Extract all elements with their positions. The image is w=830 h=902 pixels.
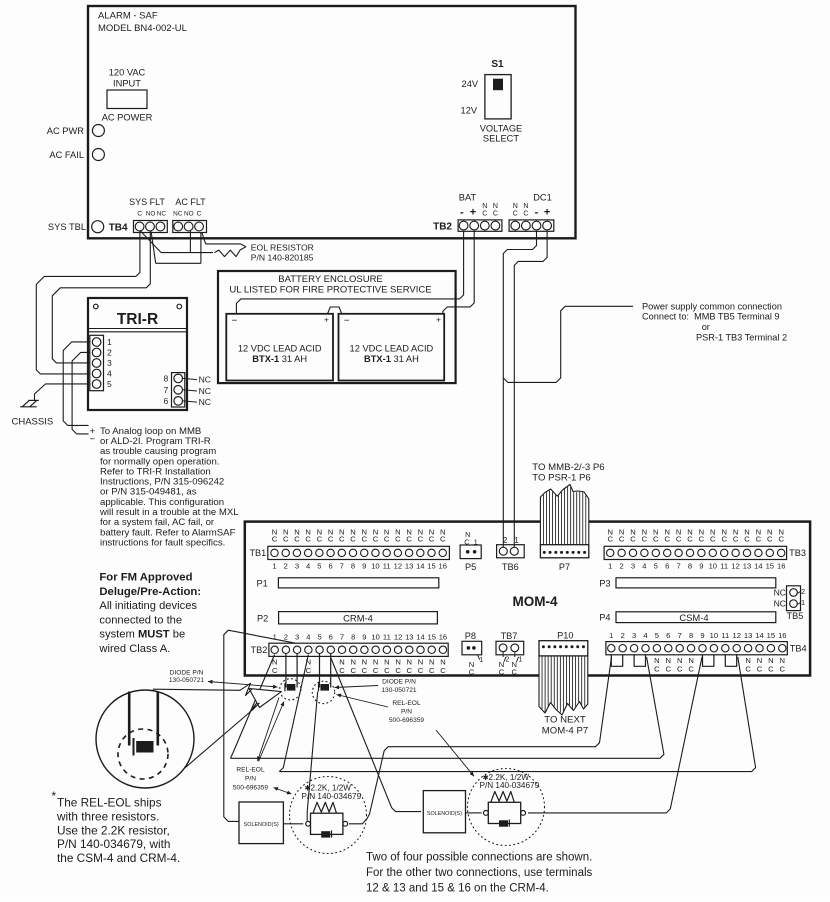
svg-text:Two of four possible connectio: Two of four possible connections are sho… xyxy=(366,852,592,864)
svg-text:7: 7 xyxy=(340,632,344,641)
svg-text:system MUST be: system MUST be xyxy=(99,629,185,641)
svg-text:P7: P7 xyxy=(559,562,570,572)
svg-text:8: 8 xyxy=(164,374,169,384)
TB4 jumper loops pairs 1-2 3-4 9-10 11-12 xyxy=(611,654,622,666)
svg-text:1: 1 xyxy=(609,631,613,640)
svg-text:-: - xyxy=(535,207,539,219)
svg-text:C: C xyxy=(756,535,762,544)
svg-text:C: C xyxy=(768,664,774,673)
svg-text:MODEL BN4-002-UL: MODEL BN4-002-UL xyxy=(98,23,187,34)
EOL resistor zigzag xyxy=(215,244,246,257)
svg-text:6: 6 xyxy=(666,631,670,640)
svg-text:Deluge/Pre-Action:: Deluge/Pre-Action: xyxy=(99,586,201,598)
zoom diode xyxy=(136,741,153,753)
svg-text:TB4: TB4 xyxy=(109,223,128,234)
svg-text:C: C xyxy=(407,666,413,675)
svg-text:All initiating devices: All initiating devices xyxy=(99,600,197,612)
svg-text:MOM-4 P7: MOM-4 P7 xyxy=(542,726,588,737)
REL-EOL dashed circle at D2 xyxy=(312,681,334,703)
svg-text:−: − xyxy=(90,434,96,445)
LED AC FAIL xyxy=(92,149,104,161)
svg-text:NC: NC xyxy=(157,210,167,217)
wire TB4 pair 1-2 to bus Ha to resistor 1 right xyxy=(349,657,612,824)
assembly 1 dotted circle xyxy=(290,777,367,854)
svg-text:C: C xyxy=(642,535,648,544)
svg-text:C: C xyxy=(778,535,784,544)
svg-text:TRI-R: TRI-R xyxy=(117,311,158,328)
wire SYS FLT NO to TRI-R terminal 3 xyxy=(52,231,150,363)
svg-text:4: 4 xyxy=(306,561,310,570)
diode D2 across TB2 terminals 5-6 xyxy=(319,654,321,688)
svg-text:DC1: DC1 xyxy=(533,193,552,203)
wire TRI-R terminal 1 to analog + xyxy=(63,342,90,426)
svg-text:2: 2 xyxy=(107,348,112,358)
wire TRI-R terminal 2 to analog - xyxy=(72,352,90,434)
svg-text:7: 7 xyxy=(678,631,682,640)
svg-text:12: 12 xyxy=(732,631,740,640)
svg-text:C: C xyxy=(373,535,379,544)
battery 2 xyxy=(339,314,445,381)
svg-text:12: 12 xyxy=(731,561,739,570)
svg-text:BATTERY ENCLOSURE: BATTERY ENCLOSURE xyxy=(278,274,383,285)
svg-text:For FM Approved: For FM Approved xyxy=(99,572,192,584)
svg-text:wired Class A.: wired Class A. xyxy=(98,643,170,655)
svg-text:NO: NO xyxy=(146,210,156,217)
zoom dashed circle xyxy=(118,729,168,779)
svg-text:5: 5 xyxy=(317,561,321,570)
svg-text:C: C xyxy=(272,666,278,675)
svg-text:C: C xyxy=(664,535,670,544)
svg-text:C: C xyxy=(197,210,202,217)
svg-text:14: 14 xyxy=(416,632,424,641)
TRI-R right terminal strip 8 7 6 xyxy=(172,373,185,407)
svg-text:12V: 12V xyxy=(461,106,478,116)
svg-text:4: 4 xyxy=(642,561,646,570)
wire TB2-1 diagonal to bus Hb xyxy=(231,655,275,759)
svg-text:BTX-1 31 AH: BTX-1 31 AH xyxy=(252,354,307,364)
svg-text:6: 6 xyxy=(164,396,169,406)
svg-text:8: 8 xyxy=(689,631,693,640)
svg-text:C: C xyxy=(373,666,379,675)
svg-text:NC: NC xyxy=(774,599,786,609)
svg-text:with three resistors.: with three resistors. xyxy=(56,809,159,823)
wire SYS FLT NO diagonal xyxy=(151,232,156,264)
svg-text:INPUT: INPUT xyxy=(113,79,141,89)
svg-text:P/N 140-034679: P/N 140-034679 xyxy=(480,781,540,790)
svg-text:N: N xyxy=(513,203,518,210)
svg-text:C: C xyxy=(395,666,401,675)
svg-text:+: + xyxy=(544,207,550,219)
svg-text:P5: P5 xyxy=(465,562,476,572)
screw hole left xyxy=(94,304,99,309)
svg-text:NC: NC xyxy=(173,210,183,217)
LED AC PWR xyxy=(92,125,104,137)
svg-text:AC FAIL: AC FAIL xyxy=(49,150,84,160)
svg-text:8: 8 xyxy=(688,561,692,570)
svg-text:DIODE P/N: DIODE P/N xyxy=(382,679,416,686)
svg-text:C: C xyxy=(418,535,424,544)
assembly 2 dotted circle xyxy=(468,769,545,846)
svg-text:6: 6 xyxy=(329,632,333,641)
svg-text:10: 10 xyxy=(710,631,718,640)
svg-text:14: 14 xyxy=(754,561,762,570)
svg-text:C: C xyxy=(493,210,498,217)
wire diode2 left to resistor 1 left xyxy=(307,692,318,821)
svg-text:TB3: TB3 xyxy=(789,548,806,558)
svg-text:500-696359: 500-696359 xyxy=(389,717,425,724)
svg-text:AC FLT: AC FLT xyxy=(175,197,206,207)
svg-text:ALARM - SAF: ALARM - SAF xyxy=(98,11,158,22)
svg-text:C: C xyxy=(710,535,716,544)
battery enclosure box xyxy=(218,271,456,383)
svg-text:2: 2 xyxy=(621,631,625,640)
wire SYS FLT C to TRI-R terminal 4 xyxy=(36,231,140,374)
svg-text:C: C xyxy=(283,535,289,544)
svg-text:7: 7 xyxy=(676,561,680,570)
svg-text:DIODE P/N: DIODE P/N xyxy=(170,669,204,676)
svg-text:9: 9 xyxy=(700,631,704,640)
svg-text:C: C xyxy=(607,535,613,544)
svg-text:CHASSIS: CHASSIS xyxy=(12,417,54,428)
svg-text:C: C xyxy=(440,666,446,675)
svg-text:instructions for fault specifi: instructions for fault specifics. xyxy=(100,537,225,548)
svg-text:S1: S1 xyxy=(491,59,504,70)
diode D1 across TB2 terminals 2-3 xyxy=(285,654,287,688)
svg-text:C: C xyxy=(499,667,505,676)
svg-text:C: C xyxy=(137,210,142,217)
svg-text:4: 4 xyxy=(643,631,647,640)
REL-EOL assembly 1 xyxy=(311,813,343,834)
power supply enclosure ALARM-SAF xyxy=(88,6,576,238)
svg-text:11: 11 xyxy=(383,632,391,641)
svg-text:*: * xyxy=(52,789,57,803)
svg-text:C: C xyxy=(676,535,682,544)
svg-text:C: C xyxy=(339,535,345,544)
wire TB2-4 diagonal to bus Hc xyxy=(279,655,308,772)
svg-text:12 VDC LEAD ACID: 12 VDC LEAD ACID xyxy=(238,344,322,354)
svg-text:P/N: P/N xyxy=(245,775,256,782)
terminal block TB4 CSM outputs xyxy=(606,642,787,655)
svg-text:+: + xyxy=(324,315,329,325)
svg-text:PSR-1 TB3 Terminal 2: PSR-1 TB3 Terminal 2 xyxy=(696,332,787,342)
svg-text:C: C xyxy=(619,535,625,544)
REL-EOL dashed circle at D1 xyxy=(280,679,301,700)
svg-text:Use the 2.2K resistor,: Use the 2.2K resistor, xyxy=(57,823,170,837)
svg-text:EOL RESISTOR: EOL RESISTOR xyxy=(251,242,314,252)
svg-text:C: C xyxy=(767,535,773,544)
bus Hc to TB4 pair 11-12 xyxy=(279,657,755,772)
wire TB4 pair 9-10 to resistor 2 right xyxy=(528,657,702,813)
svg-text:16: 16 xyxy=(439,632,447,641)
svg-text:TO NEXT: TO NEXT xyxy=(544,715,586,726)
svg-text:14: 14 xyxy=(755,631,763,640)
svg-text:2: 2 xyxy=(284,561,288,570)
wire DC1 + to TB6 terminal 1 xyxy=(514,231,547,547)
svg-text:TB6: TB6 xyxy=(502,562,519,572)
svg-text:C: C xyxy=(745,664,751,673)
svg-text:C: C xyxy=(482,210,487,217)
svg-text:CRM-4: CRM-4 xyxy=(343,612,373,623)
svg-text:C: C xyxy=(653,535,659,544)
wire H2 to AC FLT C xyxy=(156,262,201,264)
svg-text:1: 1 xyxy=(479,657,483,664)
svg-text:130-050721: 130-050721 xyxy=(169,677,205,684)
svg-text:11: 11 xyxy=(383,561,391,570)
module MOM-4 xyxy=(245,522,810,676)
svg-text:9: 9 xyxy=(362,632,366,641)
LED SYS TBL xyxy=(92,221,104,233)
svg-text:C: C xyxy=(666,664,672,673)
svg-text:SYS FLT: SYS FLT xyxy=(129,197,165,207)
svg-text:MOM-4: MOM-4 xyxy=(513,594,558,609)
svg-text:C: C xyxy=(395,535,401,544)
svg-text:NO: NO xyxy=(184,210,194,217)
solenoid box 2 xyxy=(423,791,465,833)
svg-text:TB7: TB7 xyxy=(501,631,518,641)
svg-text:+: + xyxy=(436,315,441,325)
svg-text:TB2: TB2 xyxy=(251,645,268,655)
svg-text:the CSM-4 and CRM-4.: the CSM-4 and CRM-4. xyxy=(57,851,180,865)
wire TB2-3 around left to solenoid 1 xyxy=(224,630,296,821)
svg-text:C: C xyxy=(362,666,368,675)
wire AC FLT C diagonal to resistor right lead xyxy=(202,233,206,244)
svg-text:13: 13 xyxy=(405,561,413,570)
svg-text:or: or xyxy=(702,322,710,332)
svg-text:5: 5 xyxy=(107,379,112,389)
svg-text:5: 5 xyxy=(317,632,321,641)
svg-text:6: 6 xyxy=(665,561,669,570)
svg-text:1: 1 xyxy=(514,536,518,545)
svg-text:3: 3 xyxy=(295,561,299,570)
transformer 120VAC input block xyxy=(107,90,147,109)
svg-text:14: 14 xyxy=(416,561,424,570)
TRI-R left terminal strip 1-5 xyxy=(90,335,104,390)
svg-text:C: C xyxy=(350,666,356,675)
svg-text:120 VAC: 120 VAC xyxy=(109,68,146,78)
svg-text:C: C xyxy=(384,666,390,675)
svg-text:Connect to: MMB TB5 Terminal: Connect to: MMB TB5 Terminal 9 xyxy=(642,312,780,322)
svg-text:BTX-1 31 AH: BTX-1 31 AH xyxy=(364,354,419,364)
svg-text:C: C xyxy=(733,535,739,544)
svg-text:TO MMB-2/-3 P6: TO MMB-2/-3 P6 xyxy=(532,462,604,473)
svg-text:16: 16 xyxy=(777,561,785,570)
svg-text:13: 13 xyxy=(743,561,751,570)
wire BAT - to battery1 - xyxy=(236,231,463,313)
wire SYS FLT C diagonal to EOL resistor xyxy=(140,231,161,253)
terminal block TB3 xyxy=(604,546,787,559)
solenoid box 1 xyxy=(239,802,283,844)
svg-text:C: C xyxy=(512,667,518,676)
svg-text:N: N xyxy=(493,203,498,210)
svg-text:11: 11 xyxy=(720,561,728,570)
wire TRI-R terminal 5 to chassis ground xyxy=(35,384,90,401)
svg-text:C: C xyxy=(654,664,660,673)
svg-text:C: C xyxy=(780,664,786,673)
svg-text:12: 12 xyxy=(394,561,402,570)
svg-text:SOLENOID(S): SOLENOID(S) xyxy=(244,822,279,828)
svg-text:C: C xyxy=(699,535,705,544)
svg-text:500-696359: 500-696359 xyxy=(233,784,269,791)
lightning callout arrow from magnifier to diode D1 xyxy=(249,689,281,708)
svg-text:C: C xyxy=(384,535,390,544)
svg-text:NC: NC xyxy=(199,397,211,407)
svg-text:12: 12 xyxy=(394,632,402,641)
zoom wire left xyxy=(128,692,131,746)
svg-text:1: 1 xyxy=(273,632,277,641)
svg-text:C: C xyxy=(687,535,693,544)
svg-text:AC POWER: AC POWER xyxy=(102,113,153,123)
svg-text:1: 1 xyxy=(272,561,276,570)
svg-text:C: C xyxy=(305,535,311,544)
svg-text:C: C xyxy=(429,666,435,675)
svg-text:C: C xyxy=(306,666,312,675)
wire solenoid2 to resistor2 xyxy=(466,812,482,814)
svg-text:The REL-EOL ships: The REL-EOL ships xyxy=(57,796,162,810)
svg-text:SELECT: SELECT xyxy=(483,134,519,144)
svg-text:P/N 140-820185: P/N 140-820185 xyxy=(251,253,314,263)
svg-text:N: N xyxy=(523,203,528,210)
svg-text:7: 7 xyxy=(164,385,169,395)
svg-text:15: 15 xyxy=(427,632,435,641)
svg-text:C: C xyxy=(630,535,636,544)
svg-text:P/N 140-034679: P/N 140-034679 xyxy=(302,792,362,801)
svg-text:5: 5 xyxy=(654,561,658,570)
svg-text:REL-EOL: REL-EOL xyxy=(392,700,421,707)
chassis ground symbol xyxy=(28,399,39,401)
svg-text:7: 7 xyxy=(340,561,344,570)
svg-text:8: 8 xyxy=(351,632,355,641)
svg-text:1: 1 xyxy=(608,561,612,570)
svg-text:3: 3 xyxy=(631,561,635,570)
svg-text:C: C xyxy=(677,664,683,673)
terminal block TB2 CRM outputs xyxy=(269,643,448,656)
svg-text:P10: P10 xyxy=(557,630,573,640)
svg-text:13: 13 xyxy=(405,632,413,641)
svg-text:CSM-4: CSM-4 xyxy=(679,612,708,623)
svg-text:10: 10 xyxy=(371,561,379,570)
wire node H1 to resistor xyxy=(161,252,213,254)
svg-text:C: C xyxy=(744,535,750,544)
svg-text:3: 3 xyxy=(295,632,299,641)
svg-text:2: 2 xyxy=(503,536,507,545)
svg-text:AC PWR: AC PWR xyxy=(47,126,84,136)
svg-text:10: 10 xyxy=(709,561,717,570)
svg-text:C: C xyxy=(429,535,435,544)
svg-text:C: C xyxy=(513,210,518,217)
wire DC1 - to TB6 terminal 2 xyxy=(503,231,536,547)
svg-text:1: 1 xyxy=(107,337,112,347)
svg-text:C: C xyxy=(294,535,300,544)
svg-text:P/N: P/N xyxy=(401,709,412,716)
svg-text:2: 2 xyxy=(619,561,623,570)
svg-text:TB2: TB2 xyxy=(433,222,452,233)
svg-text:130-050721: 130-050721 xyxy=(381,687,417,694)
svg-text:C: C xyxy=(350,535,356,544)
wire power supply common xyxy=(503,306,633,382)
svg-text:C: C xyxy=(523,210,528,217)
svg-text:6: 6 xyxy=(328,561,332,570)
wire battery1 + jumper to battery2 - xyxy=(328,307,342,314)
svg-text:13: 13 xyxy=(744,631,752,640)
svg-text:UL LISTED FOR FIRE PROTECTIVE: UL LISTED FOR FIRE PROTECTIVE SERVICE xyxy=(229,285,431,296)
svg-text:12 VDC LEAD ACID: 12 VDC LEAD ACID xyxy=(350,344,434,354)
terminal block TB1 xyxy=(268,546,450,559)
svg-text:SYS TBL: SYS TBL xyxy=(48,222,86,232)
connector P7 ribbon cable xyxy=(540,485,588,546)
magnifier circle detail of REL-EOL diode xyxy=(96,690,194,788)
svg-text:SOLENOID(S): SOLENOID(S) xyxy=(427,811,462,817)
svg-text:C: C xyxy=(339,666,345,675)
svg-text:-: - xyxy=(460,207,464,219)
svg-text:C: C xyxy=(272,535,278,544)
wire solenoid1 to resistor1 xyxy=(283,823,303,825)
svg-text:connected to the: connected to the xyxy=(99,614,182,626)
svg-text:P/N 140-034679, with: P/N 140-034679, with xyxy=(57,837,170,851)
zoom wire right xyxy=(157,692,160,746)
svg-text:For the other two connections,: For the other two connections, use termi… xyxy=(366,867,593,879)
svg-text:4: 4 xyxy=(306,632,310,641)
svg-text:+: + xyxy=(470,207,476,219)
svg-text:P4: P4 xyxy=(599,613,610,623)
svg-text:P8: P8 xyxy=(465,631,476,641)
svg-text:15: 15 xyxy=(766,561,774,570)
svg-text:10: 10 xyxy=(371,632,379,641)
svg-text:N: N xyxy=(482,203,487,210)
svg-text:12 & 13 and 15 & 16 on the CRM: 12 & 13 and 15 & 16 on the CRM-4. xyxy=(366,883,549,895)
svg-text:P1: P1 xyxy=(257,578,268,588)
svg-text:−: − xyxy=(232,316,238,327)
svg-text:Power supply common connection: Power supply common connection xyxy=(642,302,782,312)
svg-text:−: − xyxy=(344,316,350,327)
svg-text:1: 1 xyxy=(519,657,523,664)
svg-text:2: 2 xyxy=(284,632,288,641)
svg-text:NC: NC xyxy=(199,386,211,396)
svg-text:C: C xyxy=(418,666,424,675)
svg-text:9: 9 xyxy=(699,561,703,570)
svg-text:C: C xyxy=(361,535,367,544)
svg-text:P2: P2 xyxy=(257,614,268,624)
svg-text:C: C xyxy=(469,667,475,676)
svg-text:C: C xyxy=(721,535,727,544)
REL-EOL assembly 2 xyxy=(488,802,520,823)
svg-text:3: 3 xyxy=(107,358,112,368)
svg-text:C: C xyxy=(328,535,334,544)
svg-text:BAT: BAT xyxy=(459,193,477,203)
svg-text:3: 3 xyxy=(632,631,636,640)
svg-text:P3: P3 xyxy=(599,578,610,588)
svg-text:C: C xyxy=(406,535,412,544)
module TRI-R xyxy=(88,298,187,410)
svg-text:TB5: TB5 xyxy=(787,611,804,621)
svg-text:15: 15 xyxy=(427,561,435,570)
svg-text:REL-EOL: REL-EOL xyxy=(236,766,265,773)
svg-text:4: 4 xyxy=(107,369,112,379)
battery 1 xyxy=(226,314,333,381)
svg-text:TB1: TB1 xyxy=(249,548,266,558)
svg-text:NC: NC xyxy=(774,588,786,598)
svg-text:24V: 24V xyxy=(462,79,479,89)
bus Hb to TB4 pair 3-4 xyxy=(231,657,664,758)
svg-text:1: 1 xyxy=(801,598,805,607)
svg-text:C: C xyxy=(688,664,694,673)
svg-text:2: 2 xyxy=(801,587,805,596)
svg-text:16: 16 xyxy=(439,561,447,570)
svg-text:5: 5 xyxy=(655,631,659,640)
wire TB2-6 diagonal to solenoid 2 xyxy=(331,658,421,812)
svg-text:C: C xyxy=(317,535,323,544)
screw hole right xyxy=(177,304,182,309)
svg-text:15: 15 xyxy=(767,631,775,640)
